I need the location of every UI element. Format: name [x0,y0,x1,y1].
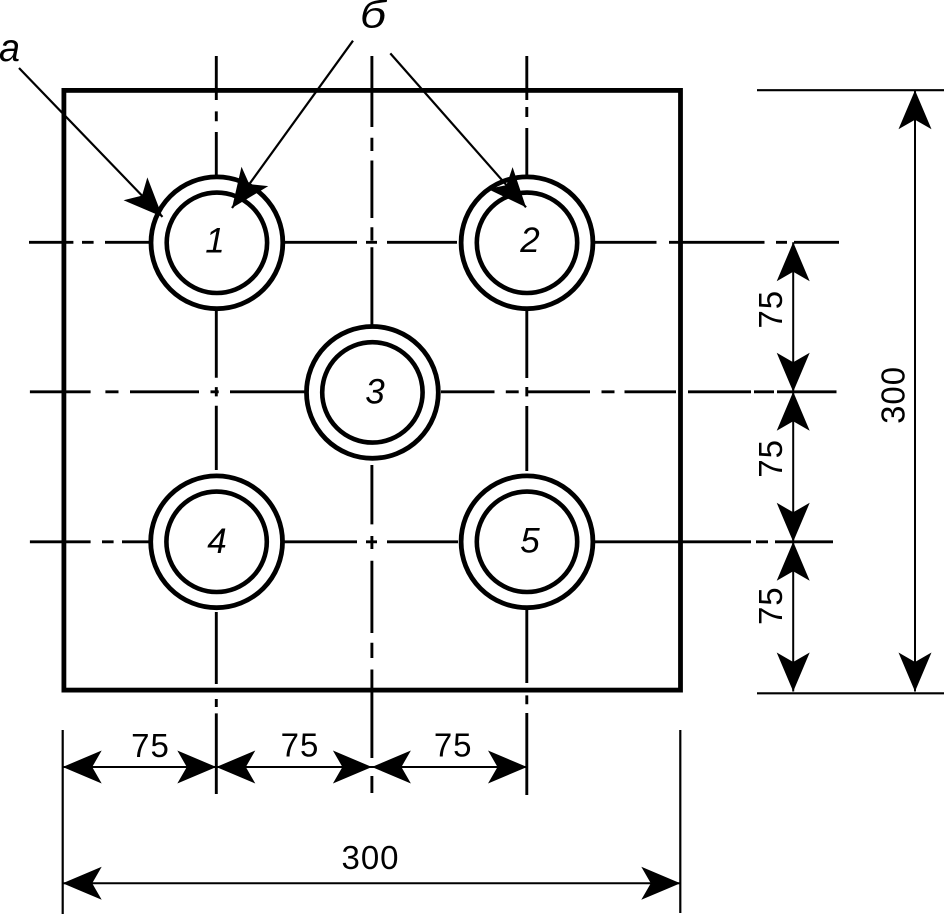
right 300 dimension line [914,90,916,691]
leader a [19,68,163,217]
bottom 75 bowtie at col1 [177,751,216,784]
centerline H3 (row of holes 4,5) [30,540,833,543]
hole 5 outer circle [461,476,593,608]
svg-text:75: 75 [281,727,320,764]
bottom 300 arrow right [641,867,680,900]
bottom-left extension line [62,730,64,914]
right 75 arrow up at row1 [777,242,810,281]
bottom 75 dimension line [63,766,527,768]
bottom 300 dimension line [63,882,681,884]
centerline V1 (column of holes 1,4) [215,56,218,794]
right 75 bowtie at row3 [777,503,810,542]
right 75 dimension line [792,242,794,691]
svg-text:2: 2 [519,221,539,260]
svg-text:1: 1 [205,222,224,261]
right 75 arrow down at bottom [777,653,810,692]
hole 1 inner circle [167,193,267,293]
svg-text:75: 75 [752,290,789,329]
svg-text:3: 3 [365,373,385,412]
svg-text:75: 75 [752,439,789,478]
bottom 75 arrow right end [488,751,527,784]
bottom 75 arrow left end [63,751,102,784]
hole 3 inner circle [322,342,422,442]
hole 4 inner circle [166,492,266,592]
centerline V2 (center column, hole 3) [370,56,373,793]
svg-text:75: 75 [752,586,789,625]
centerline H1 (row of holes 1,2) [29,241,839,244]
right 300 arrow down [899,653,932,692]
hole 2 inner circle [477,193,577,293]
svg-text:75: 75 [131,727,170,764]
top-right extension line [757,89,944,91]
leader b to hole 2 [390,53,526,207]
svg-text:75: 75 [434,727,473,764]
plate outline (square 300x300) [64,90,681,690]
centerline V3 (column of holes 2,5) [525,56,528,795]
leader b hole-2 arrowhead [488,167,539,218]
bottom 75 bowtie at col2 [333,751,372,784]
svg-text:5: 5 [520,522,540,561]
svg-text:300: 300 [875,366,912,424]
leader b to hole 1 [232,41,353,208]
centerline H2 (center row, hole 3) [30,390,837,393]
hole 5 inner circle [477,492,577,592]
right 300 arrow up [899,90,932,129]
right 75 bowtie at row2 [777,353,810,392]
bottom-right extension line (below square) [679,730,681,913]
leader b hole-1 arrowhead [219,167,269,218]
hole 4 outer circle [151,476,283,608]
svg-text:а: а [0,27,20,70]
leader a arrowhead [124,177,175,228]
hole 2 outer circle [461,177,593,309]
svg-text:300: 300 [341,839,399,876]
bottom 300 arrow left [63,867,102,900]
hole 3 outer circle [307,327,439,459]
svg-text:4: 4 [207,522,226,561]
bottom-right extension line [757,692,944,694]
svg-text:б: б [360,0,388,37]
hole 1 outer circle [151,177,283,309]
